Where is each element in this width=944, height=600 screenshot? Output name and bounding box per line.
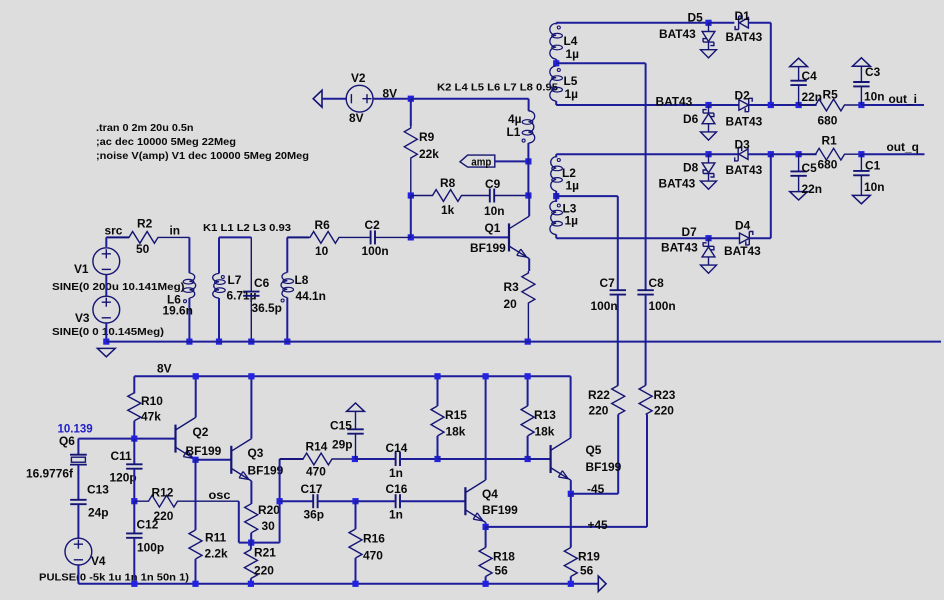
wire corner down to out_i (770, 23, 772, 105)
junction amp node (525, 158, 531, 164)
junction C1 out_q (858, 151, 864, 157)
wire R16 to bus (355, 558, 357, 584)
svg-text:C3: C3 (865, 65, 881, 79)
transistor Q1 (508, 223, 510, 251)
capacitor C14 (395, 452, 397, 466)
junction D8 top (705, 151, 711, 157)
wire L2 stub (555, 154, 557, 157)
wire D3 to junction (748, 153, 771, 155)
resistor R8 (411, 190, 462, 202)
svg-text:220: 220 (589, 404, 609, 418)
svg-text:;noise V(amp) V1 dec 10000 5Me: ;noise V(amp) V1 dec 10000 5Meg 20Meg (96, 151, 309, 162)
svg-text:BAT43: BAT43 (661, 241, 698, 255)
junction R16 top (352, 498, 358, 504)
resistor R11 (189, 530, 202, 559)
wire -45 row (571, 493, 618, 495)
svg-text:120p: 120p (110, 471, 137, 485)
diode D3 (739, 149, 748, 159)
wire C14 row segment (355, 458, 396, 460)
svg-text:1µ: 1µ (565, 87, 579, 101)
capacitor C8 (637, 289, 653, 291)
junction C9 right / L1 bottom column (525, 192, 531, 198)
wire Q5 emitter down (570, 480, 572, 494)
svg-text:1µ: 1µ (566, 47, 580, 61)
svg-text:R22: R22 (588, 388, 610, 402)
junction C17 row left (277, 498, 283, 504)
resistor R12 (134, 495, 239, 507)
wire C8 column vertical (645, 63, 647, 290)
wire D4 column up (770, 154, 772, 238)
svg-text:L8: L8 (295, 273, 309, 287)
svg-text:44.1n: 44.1n (296, 289, 326, 303)
wire R13 bottom lead (527, 436, 529, 459)
inductor L6 (189, 273, 195, 298)
svg-text:1n: 1n (389, 466, 403, 480)
svg-text:BAT43: BAT43 (659, 177, 696, 191)
svg-text:R14: R14 (306, 440, 328, 454)
transistor Q2 (174, 425, 176, 453)
wire C13 to V4 (77, 504, 79, 538)
svg-text:C1: C1 (865, 159, 881, 173)
junction R13 bottom (525, 456, 531, 462)
junction L2-L3 center tap (553, 193, 559, 199)
wire osc corner down (238, 501, 240, 542)
svg-text:R10: R10 (141, 394, 163, 408)
svg-text:out_i: out_i (889, 92, 917, 106)
wire L8 bottom (286, 298, 288, 343)
svg-text:220: 220 (254, 564, 274, 578)
voltage source V4 (65, 538, 92, 565)
svg-text:BF199: BF199 (470, 241, 506, 255)
svg-text:680: 680 (818, 114, 838, 128)
wire L2 top row3 (556, 153, 708, 155)
svg-text:8V: 8V (383, 87, 398, 101)
svg-text:20: 20 (504, 297, 518, 311)
svg-text:Q3: Q3 (248, 446, 264, 460)
svg-text:C8: C8 (649, 276, 665, 290)
wire Q2 collector up (195, 376, 197, 417)
svg-text:22n: 22n (802, 90, 823, 104)
svg-text:D7: D7 (682, 225, 698, 239)
wire row1 to D1 (709, 22, 735, 24)
wire in row corner down (188, 237, 190, 273)
svg-text:C14: C14 (386, 441, 408, 455)
svg-text:D2: D2 (735, 88, 751, 102)
diode D8 with ground (708, 154, 710, 163)
wire emitter node to Q3 base (196, 459, 232, 461)
svg-text:D1: D1 (735, 9, 751, 23)
wire node corner down (77, 439, 79, 455)
resistor R20 (245, 504, 258, 533)
svg-text:D6: D6 (683, 112, 699, 126)
svg-text:18k: 18k (446, 425, 466, 439)
junction C5 (796, 151, 802, 157)
svg-text:R1: R1 (822, 134, 838, 148)
wire C11 to R12 row (133, 469, 135, 502)
svg-text:220: 220 (654, 404, 674, 418)
svg-text:Q4: Q4 (482, 487, 498, 501)
svg-text:C7: C7 (600, 276, 616, 290)
svg-text:1k: 1k (441, 203, 455, 217)
svg-text:BF199: BF199 (586, 460, 622, 474)
svg-text:-45: -45 (587, 482, 605, 496)
svg-text:SINE(0 0 10.145Meg): SINE(0 0 10.145Meg) (52, 327, 164, 338)
junction D3-D4 out_q (768, 151, 774, 157)
svg-text:R11: R11 (205, 531, 227, 545)
capacitor C2 (340, 236, 371, 238)
junction R16 on bus (352, 581, 358, 587)
svg-text:10: 10 (315, 244, 329, 258)
svg-text:C17: C17 (301, 482, 323, 496)
ground below C1 (853, 195, 871, 203)
wire Q1 emitter down to R3 (528, 259, 530, 271)
svg-text:R16: R16 (363, 532, 385, 546)
wire osc node up column (279, 459, 281, 543)
resistor R2 (106, 232, 189, 244)
svg-text:56: 56 (495, 564, 509, 578)
resistor R15 (431, 406, 444, 436)
svg-text:R12: R12 (152, 486, 174, 500)
svg-text:D3: D3 (735, 138, 751, 152)
junction L7 on bus (216, 339, 222, 345)
svg-text:in: in (170, 224, 181, 238)
voltage source V1 (93, 248, 120, 275)
svg-text:BAT43: BAT43 (724, 244, 761, 258)
junction R15 top on rail (434, 373, 440, 379)
crystal Q6 (70, 454, 87, 456)
wire R13 row to Q5 base (528, 458, 551, 460)
svg-text:V2: V2 (351, 71, 366, 85)
junction 8V node (408, 96, 414, 102)
wire L6 bottom (188, 298, 190, 342)
svg-text:10n: 10n (864, 90, 885, 104)
svg-text:L1: L1 (507, 125, 521, 139)
svg-text:R19: R19 (578, 550, 600, 564)
svg-text:100p: 100p (137, 541, 164, 555)
capacitor C3 (860, 86, 862, 105)
svg-text:R9: R9 (419, 130, 435, 144)
inductor L1 (528, 111, 534, 143)
resistor R6 (287, 232, 340, 244)
capacitor C13 (70, 499, 86, 501)
wire Q4 emitter to R18 (485, 527, 487, 548)
wire 8V junction down to R9 (410, 99, 412, 126)
ground bus wire (106, 341, 941, 343)
inverted ground above C15 (347, 403, 365, 411)
svg-text:BAT43: BAT43 (726, 115, 763, 129)
junction Q1 base node (408, 234, 414, 240)
wire L5 bottom to row2 (555, 101, 557, 105)
wire row3 to D3 (709, 153, 739, 155)
svg-text:R20: R20 (258, 503, 280, 517)
wire C11 column (133, 439, 135, 465)
transistor Q3 (230, 446, 232, 474)
svg-text:BAT43: BAT43 (659, 27, 696, 41)
svg-text:amp: amp (471, 156, 491, 168)
wire L3 bottom to row4 (555, 235, 557, 239)
svg-text:L7: L7 (228, 273, 242, 287)
svg-text:4µ: 4µ (508, 112, 522, 126)
svg-text:680: 680 (818, 158, 838, 172)
wire out_q tail (861, 153, 924, 155)
wire rail corner to Q5 collector (570, 376, 572, 438)
wire center tap to C8 column (556, 62, 645, 64)
svg-text:100n: 100n (649, 299, 676, 313)
svg-text:C11: C11 (111, 449, 133, 463)
wire row4 to D4 (709, 237, 740, 239)
capacitor C16 (395, 494, 397, 508)
wire Q3 collector up (250, 376, 252, 438)
wire R22 to -45 row (617, 414, 619, 493)
wire C12 to bus (133, 538, 135, 584)
resistor R14 (280, 453, 355, 465)
capacitor C11 (126, 463, 142, 465)
svg-text:R2: R2 (137, 217, 153, 231)
wire V4 to bus corner (77, 565, 79, 584)
wire src vertical (105, 237, 107, 247)
transistor Q5 (549, 445, 551, 473)
svg-text:V1: V1 (74, 262, 89, 276)
junction Q3 collector on rail (248, 373, 254, 379)
wire D4 to corner (749, 237, 771, 239)
svg-text:36.5p: 36.5p (252, 301, 282, 315)
wire C7 column vertical (617, 196, 619, 290)
wire row2 to D2 (709, 104, 739, 106)
svg-text:10n: 10n (864, 180, 885, 194)
wire L4 top row1 (556, 22, 708, 24)
wire C12 column (133, 501, 135, 533)
svg-text:36p: 36p (304, 508, 325, 522)
svg-text:osc: osc (209, 490, 232, 502)
svg-text:C5: C5 (802, 161, 818, 175)
svg-text:29p: 29p (332, 438, 353, 452)
wire out_q to C5 (771, 153, 799, 155)
wire Q4 collector up (485, 376, 487, 480)
wire C16 row (356, 500, 396, 502)
wire Q3 emitter to R20 (250, 481, 252, 504)
wire C16 to Q4 base (400, 500, 465, 502)
svg-text:18k: 18k (535, 425, 555, 439)
junction D6 top (705, 102, 711, 108)
svg-text:470: 470 (363, 549, 383, 563)
diode D4 (740, 233, 750, 243)
junction Q4 emitter +45 (483, 524, 489, 530)
capacitor C6 (250, 237, 252, 291)
junction Q2 collector on rail (193, 373, 199, 379)
svg-text:8V: 8V (157, 362, 172, 376)
svg-text:22k: 22k (419, 147, 439, 161)
svg-text:C16: C16 (386, 482, 408, 496)
junction C3 out_i (858, 102, 864, 108)
8V rail wire (134, 375, 570, 377)
wire out_i tail (861, 104, 924, 106)
junction C15 bottom (352, 456, 358, 462)
diode D2 (739, 100, 749, 110)
wire C17 to R16 node (318, 500, 356, 502)
diode D5 with ground (708, 23, 710, 32)
wire R14 row left segment (280, 458, 304, 460)
resistor R10 (128, 393, 141, 421)
svg-text:+45: +45 (588, 518, 609, 532)
capacitor C4 (798, 85, 800, 105)
capacitor C5 (798, 154, 800, 171)
wire C7 to R22 (617, 295, 619, 386)
junction R18 on bus (483, 581, 489, 587)
svg-text:100n: 100n (591, 299, 618, 313)
junction D5 top (705, 20, 711, 26)
junction V sources on bus (103, 339, 109, 345)
wire node row (78, 438, 175, 440)
svg-text:SINE(0 200u 10.141Meg): SINE(0 200u 10.141Meg) (52, 282, 185, 293)
svg-text:C4: C4 (802, 69, 818, 83)
ground symbol main bus (97, 348, 115, 356)
svg-text:BAT43: BAT43 (726, 30, 763, 44)
svg-text:1n: 1n (389, 508, 403, 522)
svg-text:Q1: Q1 (485, 221, 501, 235)
port arrow at V2 input (313, 90, 322, 107)
capacitor C1 (860, 154, 862, 171)
wire V2 to 8V junction (373, 98, 411, 100)
svg-text:Q5: Q5 (586, 443, 602, 457)
junction R21 on bus (248, 581, 254, 587)
svg-text:R15: R15 (445, 408, 467, 422)
wire C17 row left (280, 500, 314, 502)
svg-text:.tran 0 2m 20u 0.5n: .tran 0 2m 20u 0.5n (96, 123, 194, 134)
resistor R9 (404, 126, 417, 196)
inductor L3 (550, 201, 556, 235)
diode D6 with ground (708, 105, 710, 114)
junction Q5 emitter -45 (568, 491, 574, 497)
wire R15 row to R13 (438, 458, 528, 460)
svg-text:30: 30 (262, 519, 276, 533)
capacitor C12 (126, 532, 142, 534)
svg-text:K2 L4 L5 L6 L7 L8 0.95: K2 L4 L5 L6 L7 L8 0.95 (437, 83, 558, 94)
wire L8 top to R6 (287, 236, 309, 238)
wire R23 to +45 row (646, 414, 648, 527)
svg-text:2.2k: 2.2k (205, 547, 229, 561)
rail corner down to R10 (133, 376, 135, 393)
wire row4 D7 row (556, 237, 708, 239)
wire V3 to ground bus (105, 323, 107, 342)
svg-text:BAT43: BAT43 (726, 163, 763, 177)
junction R11 on bus (192, 581, 198, 587)
inductor L4 (550, 23, 556, 59)
junction R20-R21 node (248, 540, 254, 546)
svg-text:src: src (105, 224, 123, 238)
capacitor C17 (312, 494, 314, 508)
svg-text:1µ: 1µ (565, 214, 579, 228)
capacitor C9 (462, 195, 490, 197)
svg-text:100n: 100n (362, 244, 389, 258)
wire L7 lead (218, 237, 220, 273)
inductor L7 (213, 274, 219, 299)
svg-text:C9: C9 (485, 177, 501, 191)
svg-text:L4: L4 (564, 34, 578, 48)
svg-text:22n: 22n (802, 182, 823, 196)
svg-text:BAT43: BAT43 (656, 95, 693, 109)
wire 8V node to L1 top corner (411, 98, 529, 100)
wire Q5 emitter to R19 (570, 494, 572, 548)
svg-text:16.9776f: 16.9776f (26, 467, 73, 481)
svg-text:R23: R23 (654, 388, 676, 402)
wire corner down to L1 (528, 99, 530, 111)
wire L7 top to C6 top (219, 236, 251, 238)
resistor R21 (244, 550, 257, 579)
svg-text:470: 470 (306, 465, 326, 479)
wire row2 out_i left (556, 104, 708, 106)
wire base row to Q1 (411, 236, 509, 238)
wire +45 row (486, 526, 647, 528)
junction R10 bottom node (131, 436, 137, 442)
wire R19 to bus (570, 577, 572, 584)
wire R15 top lead (437, 376, 439, 406)
capacitor C15 (355, 411, 357, 429)
wire C4 to R5 (799, 104, 817, 106)
svg-text:V4: V4 (91, 554, 106, 568)
wire L7 bottom (218, 298, 220, 342)
wire C8 to R23 (645, 295, 647, 386)
junction Q4 collector on rail (483, 373, 489, 379)
svg-text:BF199: BF199 (482, 503, 518, 517)
junction D1-D2 out_i (768, 102, 774, 108)
svg-text:Q6: Q6 (59, 434, 75, 448)
wire R10 bottom (133, 421, 135, 439)
port arrow at bottom bus end (598, 576, 606, 591)
junction R13 top on rail (525, 373, 531, 379)
inductor L5 (550, 66, 556, 101)
transistor Q4 (464, 487, 466, 515)
svg-text:1µ: 1µ (566, 179, 580, 193)
capacitor C7 (610, 289, 626, 291)
wire crystal to C13 (77, 465, 79, 500)
resistor R13 (521, 406, 534, 436)
wire V1 to V3 (105, 275, 107, 297)
wire D1 to corner (748, 22, 770, 24)
svg-text:10n: 10n (484, 204, 505, 218)
svg-text:R21: R21 (254, 546, 276, 560)
svg-text:C2: C2 (365, 218, 381, 232)
wire R11 to bus (195, 559, 197, 584)
svg-text:C13: C13 (87, 483, 109, 497)
wire L2 bottom to tap (555, 191, 557, 196)
wire L1 bottom to amp junction (527, 143, 529, 195)
wire R13 top lead (527, 376, 529, 406)
voltage source V2 (346, 85, 373, 112)
wire R16 top lead (355, 501, 357, 529)
svg-text:R8: R8 (440, 176, 456, 190)
svg-text:R5: R5 (823, 87, 839, 101)
resistor R19 (564, 548, 577, 577)
wire L3 top stub (555, 196, 557, 202)
junction D7 top (705, 235, 711, 241)
junction L6 on bus (186, 339, 192, 345)
junction R15 bottom (434, 456, 440, 462)
svg-text:V3: V3 (75, 311, 90, 325)
wire L8 top corner (286, 237, 288, 272)
svg-text:C6: C6 (254, 276, 270, 290)
wire R18 to bus (485, 577, 487, 584)
junction R19 on bus (568, 581, 574, 587)
wire src to R2 (106, 236, 129, 238)
junction C4 (796, 102, 802, 108)
svg-text:R13: R13 (534, 408, 556, 422)
junction C12 on bus (131, 581, 137, 587)
resistor R22 (612, 385, 625, 414)
wire R9 bottom column (410, 196, 412, 238)
wire Q2 emitter down (195, 459, 197, 461)
diode D7 with ground (708, 238, 710, 247)
svg-text:50: 50 (136, 242, 150, 256)
